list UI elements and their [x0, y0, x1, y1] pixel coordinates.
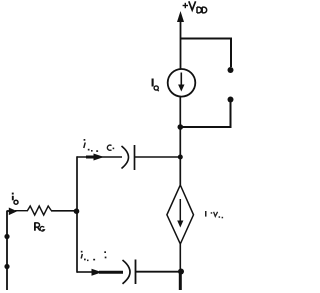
wire diamond to junction	[179, 244, 181, 272]
node gate	[74, 208, 80, 214]
power supply arrow	[177, 11, 184, 69]
node upper right	[228, 67, 234, 73]
capacitor C1 curved plate	[122, 146, 129, 169]
wire cap C1 to main	[135, 156, 180, 158]
wire output stub	[179, 272, 182, 291]
node top cap junction	[178, 155, 183, 160]
resistor RG	[28, 206, 52, 215]
label IQ	[153, 79, 159, 92]
label io	[12, 193, 18, 205]
wire resistor to node	[51, 210, 78, 212]
capacitor C2 curved plate	[123, 260, 131, 284]
capacitor C1 straight plate	[134, 145, 136, 170]
node lower right	[228, 97, 234, 103]
wire node vertical	[76, 156, 78, 272]
wire arrow to resistor	[15, 210, 28, 212]
node output junction	[178, 269, 184, 275]
capacitor C2 straight plate	[135, 260, 137, 285]
label RG	[35, 222, 45, 231]
wire top branch with arrow	[77, 156, 122, 158]
label gm v	[205, 211, 223, 218]
node main junction	[178, 124, 184, 130]
wire bottom branch with arrow	[77, 271, 92, 273]
label +VDD	[183, 1, 207, 13]
dependent source diamond	[167, 185, 194, 244]
label top branch current	[84, 139, 115, 152]
node input upper	[4, 234, 9, 239]
label bottom branch current	[81, 251, 107, 261]
node input lower	[4, 264, 9, 269]
wire upper right branch	[181, 39, 232, 68]
wire cap C2 to junction	[136, 271, 181, 273]
wire input vertical	[6, 211, 8, 291]
input arrow	[9, 208, 17, 216]
wire lower right branch	[181, 100, 231, 128]
current source IQ	[168, 69, 196, 97]
wire main vertical below circle	[179, 97, 181, 186]
